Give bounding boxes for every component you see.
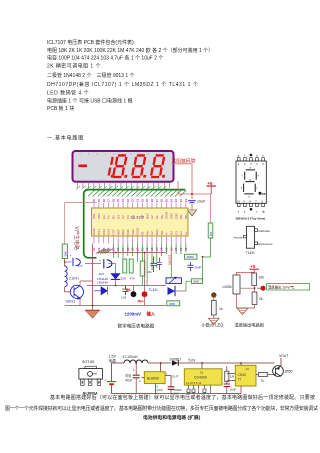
svg-text:33: 33 <box>126 199 130 203</box>
svg-text:S9013: S9013 <box>66 300 76 304</box>
svg-text:CRF: CRF <box>131 229 135 235</box>
svg-text:2k: 2k <box>259 297 263 301</box>
svg-text:100mV: 100mV <box>167 255 171 266</box>
GND pin drop (maroon) <box>92 244 94 311</box>
crystal + caps under CD4060 <box>187 389 206 393</box>
wire fan from display to bus <box>76 186 167 189</box>
display pin stubs <box>78 182 170 188</box>
svg-text:14: 14 <box>246 367 250 371</box>
chip top pin labels <box>92 212 188 220</box>
bottom ground rail <box>112 393 241 395</box>
svg-text:TL431: TL431 <box>246 251 255 255</box>
ground (LED) <box>208 318 219 324</box>
cap 100uF output <box>168 387 175 390</box>
svg-text:d: d <box>249 195 251 198</box>
svg-text:103: 103 <box>121 296 126 300</box>
wire +5 to rail <box>210 186 212 194</box>
diode D2 (right) <box>94 287 107 295</box>
svg-text:40: 40 <box>92 199 96 203</box>
svg-text:20K: 20K <box>194 280 199 284</box>
cap 47uF (input, optional) <box>135 362 137 364</box>
svg-text:16: 16 <box>200 370 204 374</box>
transistor Q1 9013 <box>70 285 83 298</box>
svg-text:TL431: TL431 <box>149 288 159 292</box>
svg-text:DH7107DP(兼容 ICL7107) 1 个 LM35D: DH7107DP(兼容 ICL7107) 1 个 LM35DZ 1 个 TL43… <box>47 81 198 88</box>
svg-text:RE-: RE- <box>179 214 183 219</box>
svg-text:REF: REF <box>121 229 125 235</box>
svg-text:32: 32 <box>131 199 135 203</box>
resistor (left, vertical) <box>62 244 67 259</box>
svg-text:IN-: IN- <box>141 231 145 235</box>
svg-text:IN-: IN- <box>155 215 159 219</box>
svg-text:输入: 输入 <box>147 311 156 318</box>
svg-text:BUF: BUF <box>145 213 149 219</box>
svg-text:+5: +5 <box>251 264 256 269</box>
resistor 10k <box>252 273 257 286</box>
svg-text:VSS: VSS <box>157 388 163 392</box>
chip bottom pin labels <box>92 228 188 236</box>
resistor 20K (right) <box>192 279 203 284</box>
main ground <box>86 311 99 319</box>
svg-text:G3: G3 <box>116 215 120 219</box>
svg-text:+: + <box>99 259 101 263</box>
svg-text:a: a <box>250 167 252 170</box>
label: temp output <box>267 283 310 290</box>
svg-text:1: 1 <box>166 372 168 376</box>
svg-text:RE+: RE+ <box>184 213 188 219</box>
svg-text:CD40: CD40 <box>238 373 247 377</box>
wire from display anode label <box>172 164 193 199</box>
svg-text:V-: V- <box>136 216 140 219</box>
svg-text:47-100uH: 47-100uH <box>123 355 138 359</box>
IN- terminal <box>131 291 137 297</box>
svg-text:IN+: IN+ <box>160 214 164 219</box>
resistor 1M (between ICs) <box>225 371 229 382</box>
svg-text:G2: G2 <box>170 231 174 235</box>
svg-text:电池供电和电源电路 (扩展): 电池供电和电源电路 (扩展) <box>143 414 201 421</box>
display digit 8 (x3) <box>113 155 131 177</box>
svg-text:e: e <box>241 187 243 190</box>
svg-text:电源插座 1 个 可接 USB 口电源线 1 根: 电源插座 1 个 可接 USB 口电源线 1 根 <box>47 98 133 105</box>
svg-text:±200mV: ±200mV <box>125 312 142 317</box>
svg-text:37: 37 <box>107 199 111 203</box>
svg-text:ICL7107 电压表 PCB 套件包含(元件表):: ICL7107 电压表 PCB 套件包含(元件表): <box>47 39 135 46</box>
transistor wires <box>80 281 93 306</box>
svg-text:L: L <box>133 368 135 372</box>
svg-text:OS3: OS3 <box>107 229 111 235</box>
svg-text:OUT: OUT <box>172 375 179 379</box>
svg-text:CRF: CRF <box>174 213 178 219</box>
svg-text:LM35: LM35 <box>223 285 232 289</box>
svg-text:10k: 10k <box>147 270 152 274</box>
svg-text:471: 471 <box>78 264 83 268</box>
analog h-wire <box>87 285 167 287</box>
svg-text:数字电压表电路图: 数字电压表电路图 <box>118 323 155 330</box>
svg-text:COM: COM <box>136 228 140 236</box>
svg-text:5: 5 <box>262 162 264 166</box>
svg-text:电阻 18K 2K 1K 20K 100K 22K 1M 4: 电阻 18K 2K 1K 20K 100K 22K 1M 47K 240 欧 各… <box>47 47 213 54</box>
svg-text:V+: V+ <box>184 231 188 235</box>
svg-text:INT: INT <box>160 230 164 235</box>
svg-text:1N4148: 1N4148 <box>97 281 108 285</box>
svg-text:AZ: AZ <box>150 231 154 235</box>
wire <box>64 259 66 267</box>
svg-text:B3: B3 <box>112 215 116 219</box>
wire fan bus to chip pins <box>88 190 186 196</box>
resistor 20K <box>167 301 180 306</box>
IN+ terminal <box>142 291 148 297</box>
svg-text:温度输出 1mV/℃: 温度输出 1mV/℃ <box>268 285 294 290</box>
svg-text:10k: 10k <box>259 276 265 280</box>
svg-text:100K: 100K <box>187 255 194 259</box>
svg-text:1N5817: 1N5817 <box>170 358 182 362</box>
svg-text:g: g <box>238 155 240 158</box>
svg-text:34: 34 <box>121 199 125 203</box>
svg-text:C3: C3 <box>126 215 130 219</box>
resistor 2k (base) <box>259 372 268 376</box>
svg-text:+: + <box>70 254 72 258</box>
resistor 2k <box>252 292 257 305</box>
svg-text:22: 22 <box>97 247 101 251</box>
svg-text:77: 77 <box>238 377 242 381</box>
svg-text:PCB 板 1 块: PCB 板 1 块 <box>47 105 74 112</box>
svg-text:36: 36 <box>111 199 115 203</box>
caps near 100mV <box>151 257 157 273</box>
pinout segment glyph <box>244 170 257 194</box>
svg-text:1M: 1M <box>230 375 235 379</box>
svg-text:G2: G2 <box>131 215 135 219</box>
svg-text:a: a <box>256 155 258 158</box>
svg-text:CRF: CRF <box>170 213 174 219</box>
wire <box>65 287 71 292</box>
inductor 2.2mH <box>65 266 68 287</box>
svg-text:c: c <box>256 187 258 190</box>
svg-text:INT: INT <box>141 214 145 219</box>
caps 104/103 column <box>123 259 127 273</box>
oscillator IC CD4060 <box>201 363 203 369</box>
mesh wires <box>144 253 146 292</box>
svg-text:A3: A3 <box>179 231 183 235</box>
svg-text:2: 2 <box>244 162 246 166</box>
svg-text:Anode: Anode <box>234 235 243 239</box>
svg-text:IN-: IN- <box>126 287 132 292</box>
svg-text:3: 3 <box>250 162 252 166</box>
svg-text:21: 21 <box>184 199 188 203</box>
svg-text:2k: 2k <box>261 378 265 382</box>
svg-text:POL: POL <box>92 213 96 219</box>
svg-text:OS1: OS1 <box>97 229 101 235</box>
svg-text:OS2: OS2 <box>102 229 106 235</box>
svg-text:11 10 9 8 12: 11 10 9 8 12 <box>186 381 202 385</box>
svg-text:10uF: 10uF <box>197 200 206 204</box>
svg-text:GND: GND <box>92 228 96 236</box>
svg-text:24: 24 <box>107 247 111 251</box>
op-chip U1 ICL7107 <box>92 208 189 236</box>
analog-section wire drops (green) <box>113 244 186 286</box>
display minus sign <box>78 165 87 168</box>
svg-text:7: 7 <box>255 199 257 203</box>
cap 200P <box>188 262 194 271</box>
chip bottom pin numbers 1..20 <box>92 247 188 251</box>
resistor 1k <box>211 301 216 316</box>
svg-text:IN+: IN+ <box>138 299 145 304</box>
svg-text:9: 9 <box>243 199 245 203</box>
svg-text:29: 29 <box>145 199 149 203</box>
svg-text:35: 35 <box>116 199 120 203</box>
svg-text:DP: DP <box>262 192 266 196</box>
svg-text:38: 38 <box>102 199 106 203</box>
svg-text:26: 26 <box>160 199 164 203</box>
svg-text:2K 精密可调电阻 1 个: 2K 精密可调电阻 1 个 <box>47 63 101 70</box>
left supply wire <box>65 203 97 244</box>
svg-text:4Ω7: 4Ω7 <box>99 272 105 276</box>
svg-text:27: 27 <box>155 199 159 203</box>
sensor LM35 <box>233 275 240 294</box>
svg-text:BL8808: BL8808 <box>147 377 159 381</box>
svg-text:Cathode: Cathode <box>258 229 270 233</box>
trimpot 2K <box>166 278 182 284</box>
svg-text:SOT-89: SOT-89 <box>82 360 94 364</box>
resistor 1M (right of chip) <box>210 194 212 223</box>
boost IC BL8808 <box>160 363 162 372</box>
diode D1 (down) <box>115 264 117 274</box>
svg-text:1: 1 <box>238 162 240 166</box>
svg-text:47uF: 47uF <box>125 379 132 383</box>
svg-text:Reference: Reference <box>258 242 273 246</box>
ground (LM35) <box>237 308 248 314</box>
7-segment LED display module DS1 (common anode) <box>73 151 174 182</box>
svg-text:LED 数码管 4 个: LED 数码管 4 个 <box>47 90 89 97</box>
svg-text:一.基本电路图: 一.基本电路图 <box>47 135 84 142</box>
svg-text:V产生电路: V产生电路 <box>73 227 80 250</box>
svg-text:8: 8 <box>249 199 251 203</box>
svg-text:e: e <box>238 210 240 213</box>
svg-text:10uF: 10uF <box>230 388 237 392</box>
svg-text:10: 10 <box>237 199 240 203</box>
svg-text:CD4060: CD4060 <box>194 376 207 380</box>
svg-text:47K: 47K <box>130 277 136 281</box>
svg-text:5.0V: 5.0V <box>189 359 197 363</box>
svg-text:f: f <box>242 175 243 178</box>
svg-text:A3: A3 <box>121 215 125 219</box>
chip top pin numbers 40..21 <box>92 199 188 203</box>
svg-text:SM4105-3 (Top View): SM4105-3 (Top View) <box>236 216 266 220</box>
svg-text:AZ: AZ <box>150 215 154 219</box>
svg-text:F3: F3 <box>107 215 111 219</box>
svg-text:20K: 20K <box>169 302 175 306</box>
svg-text:BUF: BUF <box>155 229 159 235</box>
svg-text:2: 2 <box>139 379 141 383</box>
svg-text:温度输出电路图: 温度输出电路图 <box>235 322 264 329</box>
transistor 8550 <box>273 366 284 377</box>
7-seg display pinout diagram <box>236 158 266 207</box>
svg-text:2.2mH: 2.2mH <box>69 277 80 281</box>
svg-text:23: 23 <box>174 199 178 203</box>
svg-text:基本电路图搭建好后（可以在面包板上搭建）就可以显示电压或者温: 基本电路图搭建好后（可以在面包板上搭建）就可以显示电压或者温度了，基本电路图做好… <box>50 394 315 401</box>
chip top pin stubs <box>94 203 186 208</box>
capacitor 10uF (supply bypass) <box>188 201 195 203</box>
svg-text:22: 22 <box>179 199 183 203</box>
svg-text:VOUT: VOUT <box>279 354 288 358</box>
svg-text:f: f <box>244 154 245 158</box>
svg-text:AB4: AB4 <box>97 213 101 219</box>
svg-text:1k: 1k <box>219 307 223 311</box>
svg-text:可省: 可省 <box>125 373 132 378</box>
TL431 shunt symbol <box>168 287 176 295</box>
svg-text:c: c <box>256 210 258 213</box>
electrolytic cap 47u (left) <box>65 261 72 263</box>
svg-text:REF: REF <box>116 229 120 235</box>
svg-text:39: 39 <box>97 199 101 203</box>
svg-text:18K: 18K <box>63 251 67 256</box>
svg-text:小数点 LED: 小数点 LED <box>202 322 224 329</box>
svg-text:C3: C3 <box>174 231 178 235</box>
svg-text:d: d <box>244 209 246 213</box>
svg-text:+: + <box>105 379 107 383</box>
chip bottom pin stubs <box>94 236 186 243</box>
svg-text:TST: TST <box>112 229 116 235</box>
resistor 100K box <box>185 254 198 259</box>
wire V+ rail <box>178 181 211 194</box>
resistor 10K (mid) <box>140 261 145 276</box>
svg-text:1M: 1M <box>209 231 213 236</box>
svg-text:4: 4 <box>256 162 258 166</box>
svg-text:二极管 1N4148 2 个 三极管 9013 1 个: 二极管 1N4148 2 个 三极管 9013 1 个 <box>47 72 135 79</box>
TL431 package diagram <box>243 226 257 248</box>
svg-text:200P: 200P <box>195 266 202 270</box>
svg-text:24: 24 <box>169 199 173 203</box>
cap 10uF (between ICs) <box>224 384 230 387</box>
wire (emitter rail) <box>65 305 166 307</box>
cap 103 <box>122 286 128 296</box>
svg-text:28: 28 <box>150 199 154 203</box>
svg-text:IN+: IN+ <box>145 230 149 235</box>
svg-text:25: 25 <box>165 199 169 203</box>
svg-text:b: b <box>262 154 264 158</box>
svg-text:23: 23 <box>102 247 106 251</box>
svg-text:电容 100P 104 474 224 103 4.7uF: 电容 100P 104 474 224 103 4.7uF 各 1 个 10uF… <box>47 55 163 62</box>
svg-text:电源: 电源 <box>109 358 117 363</box>
logic IC CD4077 <box>240 363 242 365</box>
green bus wire (display to chip) <box>84 190 186 258</box>
svg-text:b: b <box>257 175 259 178</box>
svg-text:30: 30 <box>140 199 144 203</box>
svg-text:图一个一个元件焊接好就可以让显示电压或者温度了。基本电路图附: 图一个一个元件焊接好就可以让显示电压或者温度了。基本电路图附带分功能图在切换，多… <box>5 405 318 412</box>
svg-text:22K: 22K <box>121 277 127 281</box>
svg-text:6: 6 <box>261 199 263 203</box>
svg-text:V-: V- <box>165 232 169 235</box>
decimal point LED <box>211 292 216 297</box>
svg-text:COM: COM <box>165 212 169 220</box>
electrolytic cap 4u7 <box>85 263 101 265</box>
svg-text:8550: 8550 <box>285 369 293 373</box>
temperature output terminal <box>261 286 266 291</box>
ground (bypass cap) <box>188 210 197 216</box>
bus fan-out to chip pins <box>96 249 113 254</box>
svg-text:CRF: CRF <box>126 229 130 235</box>
svg-text:31: 31 <box>136 199 140 203</box>
display digit 1 <box>108 157 117 178</box>
svg-text:E3: E3 <box>102 215 106 219</box>
svg-text:dp: dp <box>262 209 265 213</box>
top rail wire <box>112 362 124 364</box>
svg-text:+5: +5 <box>207 181 213 186</box>
